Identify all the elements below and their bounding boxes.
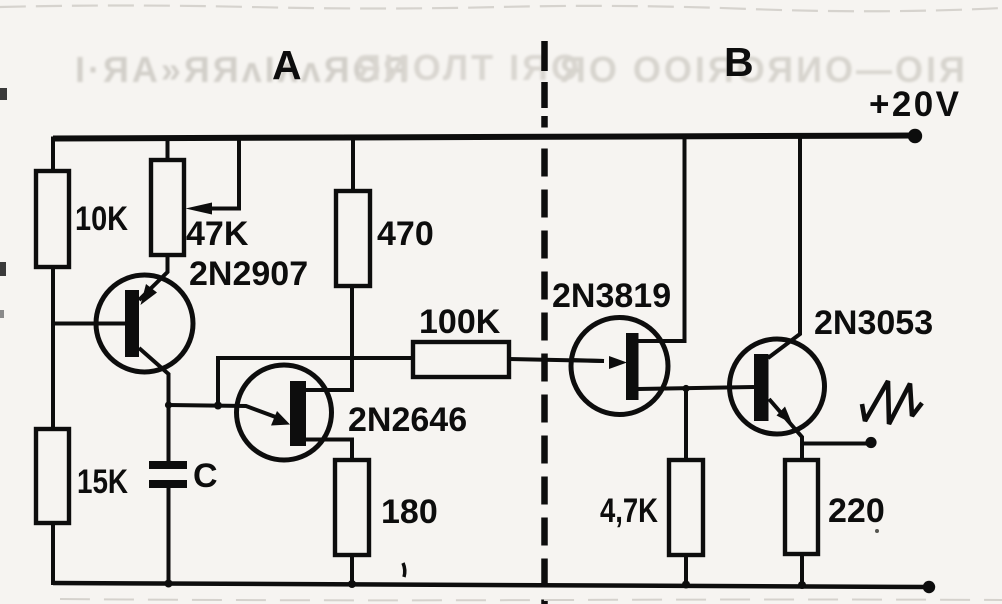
stray ink dot artifact — [875, 529, 879, 533]
svg-text:ЯО ООIЯОЯИО—ОIЯ: ЯО ООIЯОЯИО—ОIЯ — [560, 49, 968, 90]
capacitor C bottom plate — [149, 480, 187, 488]
svg-text:2N3819: 2N3819 — [552, 277, 671, 315]
wire 470 top lead — [351, 138, 355, 191]
dashed divider line — [541, 41, 548, 128]
wire tap up to 100K — [218, 358, 413, 405]
wire 4.7K top lead — [684, 388, 688, 460]
junction dot Q1 collector node — [165, 401, 172, 408]
svg-text:15K: 15K — [77, 463, 128, 501]
wire left rail top segment — [53, 139, 60, 172]
svg-text:4,7K: 4,7K — [600, 492, 658, 530]
resistor R 15K — [36, 429, 69, 523]
wire capacitor top lead — [167, 403, 171, 461]
Q4 collector wire to top rail — [768, 138, 800, 358]
Q1 base bar — [125, 290, 139, 357]
Q2 B2 wire to 470 — [305, 286, 352, 390]
page left edge artifacts — [0, 88, 7, 100]
svg-text:C: C — [193, 457, 218, 495]
+20V terminal dot — [908, 129, 922, 143]
Q4 emitter arrowhead (NPN, outward) — [777, 407, 793, 424]
Q4 base bar — [754, 354, 769, 421]
page top edge artifact — [0, 6, 1002, 12]
junction dot 4.7K/ground — [682, 581, 690, 589]
svg-text:+20V: +20V — [869, 85, 960, 124]
svg-text:10K: 10K — [75, 200, 128, 238]
bottom ground rail wire — [53, 583, 929, 587]
svg-text:A: A — [272, 42, 302, 88]
resistor R 470 — [336, 191, 370, 286]
dashed divider lower part — [541, 149, 548, 604]
svg-text:2N3053: 2N3053 — [814, 304, 933, 342]
resistor R 220 — [785, 460, 818, 554]
transistor Q4 2N3053 circle — [730, 339, 825, 434]
capacitor C top plate — [149, 461, 187, 469]
wire output tap — [802, 442, 867, 446]
junction dot capacitor/ground — [165, 580, 173, 588]
svg-text:100K: 100K — [419, 303, 501, 341]
svg-text:2N2646: 2N2646 — [348, 401, 467, 439]
stray ink tick near ground rail — [403, 563, 405, 577]
svg-text:180: 180 — [381, 493, 438, 531]
Q3 source wire to Q4 base — [638, 387, 754, 389]
resistor R 10K — [36, 171, 69, 267]
transistor Q3 2N3819 circle — [571, 318, 668, 415]
sawtooth output waveform — [862, 381, 922, 424]
wire 100K right lead to JFET gate — [509, 359, 604, 361]
UJT emitter arrowhead — [271, 411, 290, 426]
potentiometer 47K body — [151, 160, 184, 255]
svg-text:ЯИОЛТ IЯО: ЯИОЛТ IЯО — [355, 47, 582, 88]
Q4 emitter line — [769, 399, 802, 460]
page bottom edge artifact — [60, 599, 1002, 600]
transistor Q1 2N2907 circle — [96, 275, 193, 372]
wire 4.7K bottom lead — [684, 555, 688, 586]
resistor R 180 — [335, 460, 369, 555]
resistor R 4,7K — [669, 460, 703, 555]
47K wiper arrowhead — [186, 203, 213, 215]
Q2 B1 wire to 180 — [305, 440, 352, 461]
output terminal dot — [865, 437, 876, 448]
svg-text:220: 220 — [828, 492, 885, 530]
junction dot 180/ground — [348, 580, 356, 588]
JFET gate arrowhead — [609, 356, 627, 369]
svg-text:470: 470 — [377, 215, 434, 253]
Q3 drain wire to top rail — [638, 138, 685, 341]
wire 47K wiper from top rail — [200, 138, 239, 209]
wire 47K top lead — [166, 138, 170, 160]
wire 180 bottom lead — [350, 555, 354, 585]
Q3 channel bar — [626, 333, 639, 400]
wire 220 bottom lead — [800, 554, 804, 587]
wire capacitor bottom lead — [167, 488, 171, 585]
wire emitter node horizontal to UJT — [169, 405, 282, 419]
resistor R 100K — [413, 342, 509, 377]
Q2 base bar — [290, 381, 306, 446]
svg-text:47K: 47K — [186, 215, 249, 253]
junction dot source/4.7K — [682, 385, 689, 392]
wire left rail middle segment — [51, 267, 55, 429]
transistor Q2 2N2646 circle — [237, 365, 332, 460]
Q1 emitter line (to 47K bottom) — [139, 255, 168, 300]
Q1 collector line — [139, 348, 169, 405]
top supply rail wire — [53, 136, 915, 139]
junction dot emitter node tap — [214, 402, 222, 410]
wire Q1 base from left rail — [53, 322, 125, 326]
junction dot 220/ground — [798, 581, 806, 589]
Q1 emitter arrowhead (PNP, into base) — [141, 284, 158, 305]
ground rail end dot — [923, 581, 935, 593]
Q3 gate wire inside circle — [571, 360, 604, 361]
wire left rail bottom segment — [51, 523, 55, 585]
svg-text:B: B — [724, 39, 754, 85]
svg-text:2N2907: 2N2907 — [189, 255, 308, 293]
